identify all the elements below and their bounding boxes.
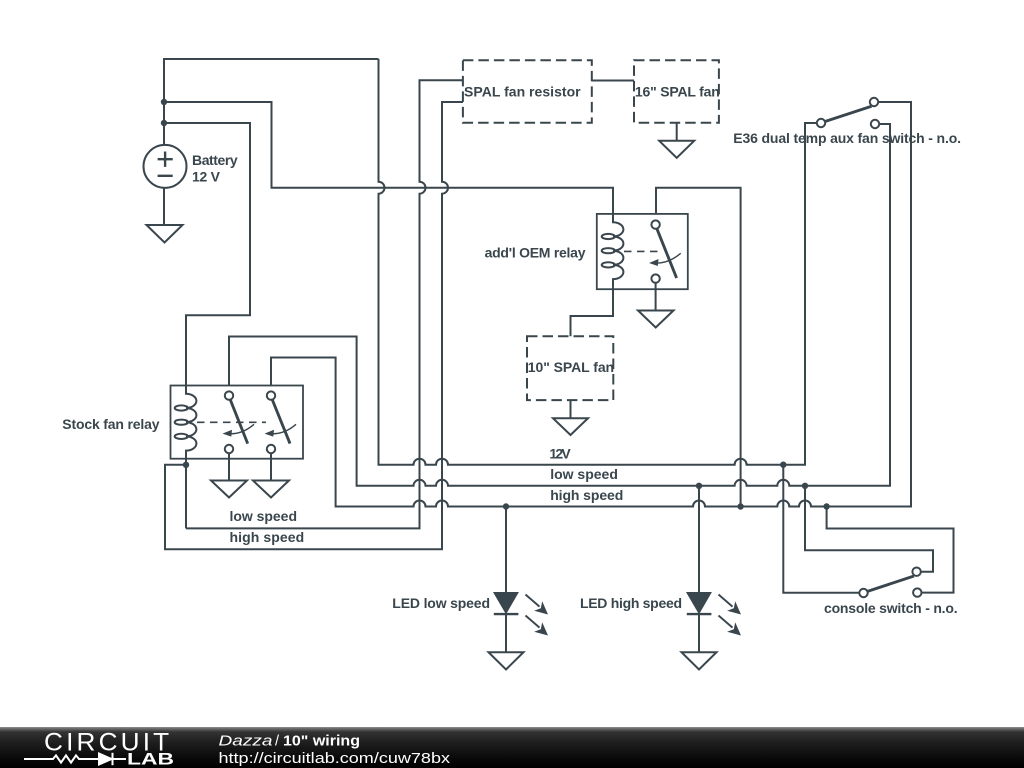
node B junction dot xyxy=(161,120,167,126)
label 12 V value xyxy=(192,169,221,185)
wire high speed rail: stock relay switch2 top, right along y=506.5, up to E36 switch top right contact xyxy=(271,102,911,507)
ground below 10" SPAL fan xyxy=(553,400,588,435)
label add'l OEM relay xyxy=(485,245,586,261)
LED D1 low speed indicator xyxy=(494,593,548,652)
wire low speed rail: stock relay switch1 top, right along y=485.8, up to E36 switch lower right contact xyxy=(229,124,890,486)
label 10" SPAL fan xyxy=(528,359,614,375)
node high speed rail LED tap junction dot xyxy=(503,503,509,509)
node low speed rail LED tap junction dot xyxy=(696,483,702,489)
relay U2 internal dashed link xyxy=(624,250,660,252)
CircuitLab logo wordmark CIRCUIT xyxy=(44,729,172,757)
svg-text:16" SPAL fan: 16" SPAL fan xyxy=(635,84,720,100)
label Battery xyxy=(192,152,238,168)
label low speed net xyxy=(550,466,618,482)
CircuitLab logo resistor-diode glyph xyxy=(24,753,126,765)
label console switch - n.o. xyxy=(824,600,958,616)
svg-text:http://circuitlab.com/cuw78bx: http://circuitlab.com/cuw78bx xyxy=(219,751,451,767)
label low speed bottom wire xyxy=(230,508,298,524)
node A junction dot xyxy=(161,99,167,105)
switch S2 console switch xyxy=(859,568,921,598)
svg-text:10" SPAL fan: 10" SPAL fan xyxy=(528,359,614,375)
svg-text:LED high speed: LED high speed xyxy=(580,595,682,611)
label high speed net xyxy=(550,487,623,503)
CircuitLab logo wordmark LAB xyxy=(127,751,174,768)
relay U2 coil xyxy=(602,214,624,288)
wire LED high speed feed from low speed rail xyxy=(698,486,700,593)
wire node A branch to add'l OEM relay coil xyxy=(164,102,613,214)
svg-text:add'l OEM relay: add'l OEM relay xyxy=(485,245,586,261)
wire SPAL fan resistor pin1 down x=419.5 to low speed bottom wire xyxy=(186,80,463,528)
svg-text:SPAL fan resistor: SPAL fan resistor xyxy=(464,84,581,100)
10" SPAL fan subcircuit box xyxy=(527,336,613,400)
svg-text:E36 dual temp aux fan switch -: E36 dual temp aux fan switch - n.o. xyxy=(733,130,961,146)
label LED high speed xyxy=(580,595,682,611)
label Stock fan relay xyxy=(62,416,159,432)
label E36 dual temp aux fan switch - n.o. xyxy=(733,130,961,146)
wire console switch feed from high speed rail node xyxy=(827,507,954,593)
ground below relay U2 switch xyxy=(638,283,674,328)
footer title Dazza / 10" wiring xyxy=(219,734,361,750)
svg-text:Dazza: Dazza xyxy=(219,734,273,750)
wire node B branch to stock fan relay coil xyxy=(164,123,250,386)
node 12V rail to console switch junction dot xyxy=(780,462,786,468)
wire console switch feed from low speed rail node xyxy=(805,486,933,572)
svg-text:low speed: low speed xyxy=(230,508,298,524)
svg-text:12 V: 12 V xyxy=(192,169,221,185)
wire top rail battery to 12V bus xyxy=(164,59,379,146)
relay U1 coil xyxy=(175,386,197,459)
footer url xyxy=(219,751,451,767)
svg-text:high speed: high speed xyxy=(230,529,305,545)
svg-text:10" wiring: 10" wiring xyxy=(283,734,360,750)
ground below 16" SPAL fan xyxy=(659,123,694,158)
ground below relay U1 switch 2 xyxy=(253,453,289,497)
svg-text:console switch - n.o.: console switch - n.o. xyxy=(824,600,958,616)
wire console switch feed from 12V rail node xyxy=(783,465,859,593)
svg-text:low speed: low speed xyxy=(550,466,618,482)
wire stock relay coil bottom through node to low speed bottom wire xyxy=(185,459,187,529)
label LED low speed xyxy=(392,595,490,611)
wire add'l OEM relay coil bottom to 10" SPAL fan xyxy=(571,288,614,337)
ground below battery xyxy=(147,188,183,243)
svg-text:high speed: high speed xyxy=(550,487,623,503)
svg-text:LAB: LAB xyxy=(127,751,174,768)
relay U2 switch xyxy=(649,220,681,282)
relay U1 switch 2 (high speed) xyxy=(265,391,297,453)
relay U2 add'l OEM relay box xyxy=(597,214,688,289)
node high speed rail OEM relay junction dot xyxy=(737,503,743,509)
wire add'l OEM relay switch top to high speed rail via x=740.6 xyxy=(656,188,741,507)
label SPAL fan resistor xyxy=(464,84,581,100)
relay U1 switch 1 (low speed) xyxy=(223,391,255,453)
ground below relay U1 switch 1 xyxy=(211,453,247,497)
SPAL fan resistor subcircuit box xyxy=(463,60,592,122)
wire SPAL fan resistor pin2 down x=442 to high speed bottom wire xyxy=(165,102,463,549)
switch S1 E36 dual temp aux fan switch xyxy=(805,98,911,128)
svg-text:LED low speed: LED low speed xyxy=(392,595,490,611)
relay U1 stock fan relay box xyxy=(171,386,304,459)
battery V1 12V source xyxy=(144,145,187,188)
wire LED low speed feed from high speed rail xyxy=(505,507,507,594)
LED D2 high speed indicator xyxy=(687,593,741,652)
16" SPAL fan subcircuit box xyxy=(634,60,719,122)
node stock relay coil bottom junction dot xyxy=(183,462,189,468)
ground below LED D1 xyxy=(489,652,524,669)
wire SPAL fan resistor to 16" SPAL fan xyxy=(592,80,634,82)
ground below LED D2 xyxy=(682,652,717,669)
svg-text:/: / xyxy=(275,734,280,750)
svg-text:Battery: Battery xyxy=(192,152,238,168)
node low speed rail console feed junction dot xyxy=(802,483,808,489)
svg-text:Stock fan relay: Stock fan relay xyxy=(62,416,159,432)
node high speed rail console feed junction dot xyxy=(823,503,829,509)
label 16" SPAL fan xyxy=(635,84,720,100)
relay U1 internal dashed link xyxy=(197,421,266,423)
svg-text:12V: 12V xyxy=(549,446,571,462)
wire 12V rail: down x=378.5 with hop, right along y=464.7 with hops, up to E36 switch left contact xyxy=(379,59,818,465)
label high speed bottom wire xyxy=(230,529,305,545)
label 12V net xyxy=(549,446,571,462)
